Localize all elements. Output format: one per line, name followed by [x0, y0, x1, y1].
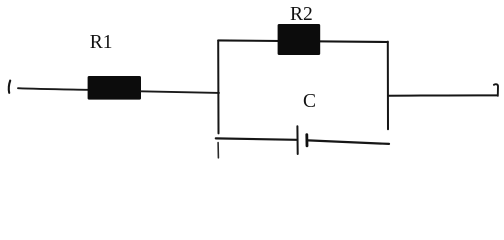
capacitor C left plate — [296, 126, 298, 154]
svg-text:C: C — [303, 91, 316, 112]
svg-text:R1: R1 — [90, 32, 113, 53]
resistor R1 — [88, 76, 141, 100]
capacitor C right plate — [305, 135, 308, 146]
node B: right vertical of parallel section — [387, 42, 389, 130]
svg-text:R2: R2 — [290, 4, 313, 25]
resistor R2 — [278, 24, 321, 55]
node A: left vertical of parallel section — [217, 41, 219, 134]
wire left terminal to R1 — [18, 88, 88, 90]
wire: bottom rail left of capacitor — [216, 138, 297, 139]
wire: bottom rail right of capacitor — [308, 140, 389, 144]
wire: left vertical stub below bottom rail — [217, 143, 219, 158]
wire node B to right terminal — [388, 94, 497, 96]
wire: top rail — [218, 40, 388, 42]
right terminal hook — [494, 84, 498, 96]
wire R1 to node A — [141, 91, 219, 93]
left terminal tick — [9, 81, 10, 93]
